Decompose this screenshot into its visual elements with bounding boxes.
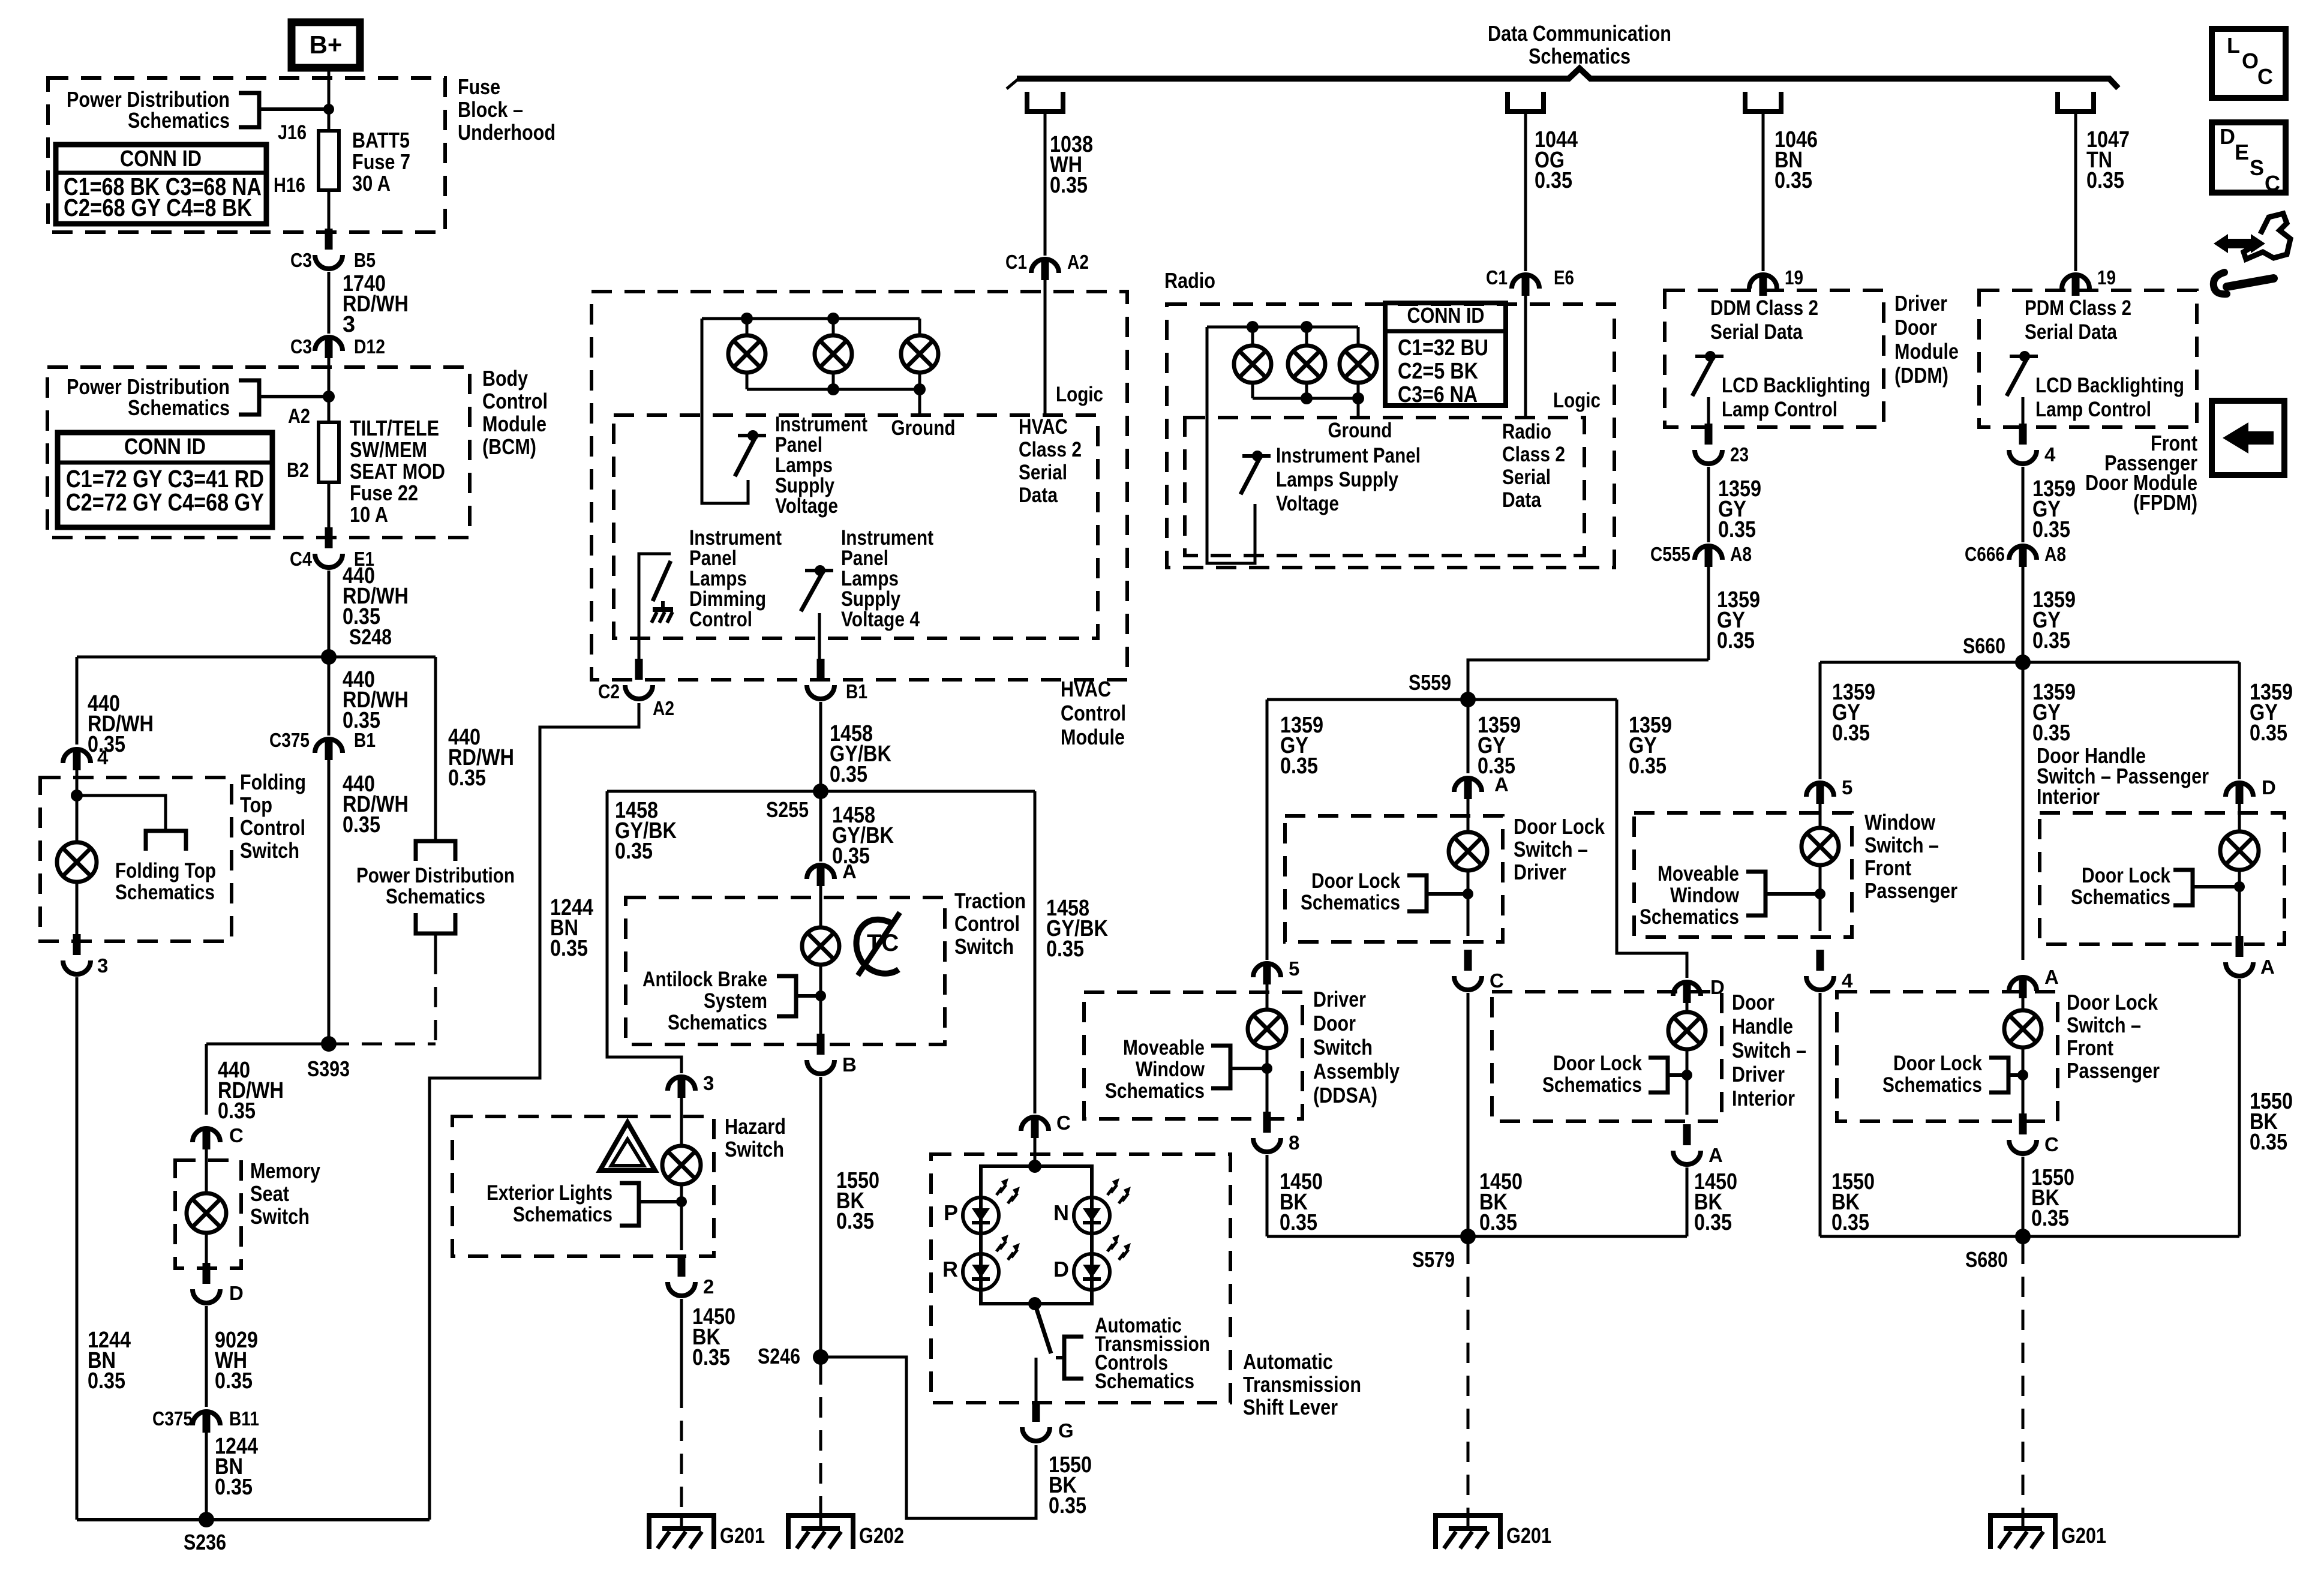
svg-text:D: D: [2262, 776, 2276, 798]
svg-text:D: D: [2220, 124, 2235, 149]
svg-text:S579: S579: [1412, 1247, 1455, 1272]
svg-text:(DDSA): (DDSA): [1313, 1083, 1377, 1107]
svg-text:Window: Window: [1670, 884, 1740, 907]
svg-text:Switch –: Switch –: [2067, 1013, 2141, 1037]
svg-text:Schematics: Schematics: [128, 395, 230, 420]
svg-text:3: 3: [97, 954, 108, 977]
svg-text:O: O: [2242, 49, 2259, 73]
svg-text:0.35: 0.35: [1717, 628, 1755, 653]
svg-text:Switch: Switch: [240, 838, 299, 863]
svg-text:C375: C375: [152, 1407, 193, 1430]
svg-text:5: 5: [1842, 776, 1852, 798]
svg-text:Ground: Ground: [891, 416, 956, 440]
svg-text:D12: D12: [354, 335, 385, 358]
svg-text:C2=5 BK: C2=5 BK: [1398, 359, 1478, 384]
svg-text:0.35: 0.35: [1718, 517, 1756, 542]
svg-text:Lamp Control: Lamp Control: [2035, 398, 2151, 421]
svg-text:(BCM): (BCM): [482, 434, 536, 459]
svg-text:4: 4: [2044, 443, 2056, 466]
svg-text:CONN ID: CONN ID: [120, 146, 202, 172]
svg-text:Switch: Switch: [1313, 1035, 1373, 1059]
svg-text:C666: C666: [1965, 543, 2005, 565]
svg-text:S248: S248: [349, 625, 392, 649]
svg-text:0.35: 0.35: [2086, 168, 2124, 193]
svg-text:S255: S255: [766, 797, 809, 822]
svg-text:Driver: Driver: [1514, 860, 1566, 884]
svg-text:Driver: Driver: [1894, 291, 1947, 316]
svg-text:C: C: [1056, 1112, 1071, 1134]
svg-text:H16: H16: [274, 174, 305, 197]
svg-text:Radio: Radio: [1164, 268, 1215, 293]
svg-text:Traction: Traction: [954, 888, 1026, 913]
svg-text:0.35: 0.35: [1479, 1210, 1517, 1235]
svg-text:G: G: [1058, 1419, 1074, 1442]
svg-text:Antilock Brake: Antilock Brake: [642, 968, 767, 991]
svg-text:D: D: [229, 1282, 244, 1304]
svg-text:C: C: [2044, 1133, 2059, 1155]
svg-text:0.35: 0.35: [2032, 517, 2070, 542]
svg-text:Front: Front: [2067, 1035, 2113, 1060]
svg-text:Lamps Supply: Lamps Supply: [1276, 468, 1398, 491]
svg-text:G202: G202: [859, 1523, 904, 1548]
svg-text:B+: B+: [310, 31, 343, 59]
svg-text:Interior: Interior: [1732, 1086, 1795, 1110]
svg-text:Schematics: Schematics: [1529, 44, 1631, 68]
svg-text:0.35: 0.35: [2031, 1206, 2069, 1231]
svg-text:(DDM): (DDM): [1894, 363, 1948, 388]
svg-text:J16: J16: [278, 121, 307, 144]
svg-text:0.35: 0.35: [215, 1475, 253, 1500]
svg-text:Moveable: Moveable: [1123, 1036, 1205, 1059]
svg-text:Instrument Panel: Instrument Panel: [1276, 444, 1421, 467]
svg-text:C2=68 GY C4=8 BK: C2=68 GY C4=8 BK: [64, 194, 252, 221]
svg-text:Schematics: Schematics: [1542, 1073, 1642, 1097]
svg-text:0.35: 0.35: [550, 936, 588, 961]
svg-text:Serial: Serial: [1502, 466, 1551, 489]
svg-text:D: D: [1053, 1257, 1069, 1281]
svg-text:Assembly: Assembly: [1313, 1059, 1400, 1083]
svg-text:S660: S660: [1963, 634, 2005, 658]
svg-text:Switch –: Switch –: [1514, 837, 1588, 861]
svg-text:0.35: 0.35: [2032, 628, 2070, 653]
svg-text:Door Lock: Door Lock: [2082, 864, 2170, 887]
svg-text:5: 5: [1289, 957, 1299, 980]
svg-text:0.35: 0.35: [215, 1368, 253, 1394]
svg-text:Voltage 4: Voltage 4: [841, 608, 920, 631]
svg-text:C2=72 GY C4=68 GY: C2=72 GY C4=68 GY: [66, 488, 264, 516]
svg-text:Serial Data: Serial Data: [2025, 320, 2117, 344]
svg-text:0.35: 0.35: [2250, 1130, 2287, 1155]
svg-text:C4: C4: [290, 548, 313, 570]
svg-text:0.35: 0.35: [1049, 1493, 1086, 1518]
svg-text:A: A: [2260, 956, 2275, 978]
svg-text:Exterior Lights: Exterior Lights: [487, 1181, 612, 1205]
svg-text:Transmission: Transmission: [1243, 1372, 1361, 1397]
svg-text:TILT/TELE: TILT/TELE: [350, 416, 439, 440]
svg-text:Schematics: Schematics: [2071, 885, 2170, 909]
svg-text:Driver: Driver: [1313, 987, 1366, 1011]
svg-text:S236: S236: [184, 1530, 226, 1554]
svg-text:Serial Data: Serial Data: [1710, 320, 1803, 344]
svg-text:4: 4: [97, 746, 109, 769]
svg-text:Schematics: Schematics: [386, 885, 485, 908]
svg-text:LCD Backlighting: LCD Backlighting: [1722, 374, 1870, 397]
svg-text:BATT5: BATT5: [352, 128, 410, 152]
svg-text:Switch: Switch: [725, 1137, 784, 1161]
svg-text:C2: C2: [598, 680, 620, 703]
svg-text:Window: Window: [1864, 810, 1936, 834]
svg-text:Class 2: Class 2: [1502, 443, 1565, 466]
svg-text:Module: Module: [482, 412, 547, 436]
svg-text:E6: E6: [1554, 266, 1574, 289]
svg-text:A: A: [2044, 966, 2059, 988]
svg-text:Radio: Radio: [1502, 420, 1551, 443]
svg-text:Control: Control: [1061, 701, 1126, 725]
svg-text:S559: S559: [1409, 670, 1451, 695]
svg-text:Switch: Switch: [250, 1204, 310, 1229]
svg-text:S: S: [2250, 155, 2264, 180]
svg-text:B1: B1: [354, 729, 376, 751]
svg-text:G201: G201: [2061, 1523, 2106, 1548]
svg-text:0.35: 0.35: [1050, 173, 1088, 198]
svg-text:19: 19: [2097, 266, 2116, 289]
svg-text:B11: B11: [229, 1407, 259, 1430]
svg-text:C3: C3: [290, 335, 312, 358]
svg-text:C: C: [2257, 64, 2273, 89]
svg-text:Door Lock: Door Lock: [1553, 1052, 1642, 1075]
svg-text:19: 19: [1785, 266, 1803, 289]
svg-text:0.35: 0.35: [1629, 754, 1667, 779]
svg-text:A2: A2: [653, 697, 674, 719]
svg-text:DDM Class 2: DDM Class 2: [1710, 296, 1818, 320]
svg-text:0.35: 0.35: [2032, 721, 2070, 746]
svg-text:Front: Front: [1864, 855, 1911, 880]
svg-text:0.35: 0.35: [830, 762, 867, 787]
svg-text:(FPDM): (FPDM): [2133, 490, 2197, 515]
svg-text:Switch –: Switch –: [1732, 1038, 1806, 1062]
svg-text:A: A: [842, 860, 857, 882]
svg-text:Schematics: Schematics: [115, 881, 215, 904]
svg-text:A2: A2: [1067, 251, 1089, 273]
svg-text:Logic: Logic: [1553, 389, 1601, 412]
svg-text:Driver: Driver: [1732, 1062, 1785, 1086]
svg-text:Schematics: Schematics: [128, 108, 230, 133]
svg-text:A: A: [1709, 1144, 1723, 1166]
svg-text:Schematics: Schematics: [1105, 1079, 1205, 1103]
svg-text:PDM Class 2: PDM Class 2: [2025, 296, 2131, 320]
svg-text:0.35: 0.35: [615, 839, 653, 864]
svg-text:Interior: Interior: [2037, 784, 2100, 809]
svg-text:Data: Data: [1502, 488, 1541, 512]
svg-text:HVAC: HVAC: [1061, 677, 1111, 701]
svg-text:0.35: 0.35: [1774, 168, 1812, 193]
svg-text:0.35: 0.35: [836, 1209, 874, 1234]
svg-text:3: 3: [703, 1072, 714, 1094]
svg-text:Automatic: Automatic: [1243, 1349, 1333, 1374]
svg-text:System: System: [704, 989, 767, 1013]
svg-text:Door Lock: Door Lock: [1311, 869, 1400, 893]
svg-text:Module: Module: [1894, 339, 1959, 364]
svg-text:Data Communication: Data Communication: [1488, 21, 1671, 46]
svg-text:Block –: Block –: [458, 97, 523, 122]
svg-text:0.35: 0.35: [1280, 1210, 1317, 1235]
svg-text:Control: Control: [954, 911, 1020, 936]
svg-text:C555: C555: [1650, 543, 1691, 565]
svg-text:Serial: Serial: [1019, 461, 1067, 484]
svg-text:Schematics: Schematics: [1882, 1073, 1982, 1097]
svg-text:Folding: Folding: [240, 770, 306, 794]
svg-text:0.35: 0.35: [1535, 168, 1572, 193]
svg-text:Switch: Switch: [954, 934, 1014, 959]
svg-text:Schematics: Schematics: [1095, 1370, 1194, 1393]
svg-text:B1: B1: [846, 680, 867, 703]
svg-text:Hazard: Hazard: [725, 1114, 786, 1139]
svg-text:Control: Control: [240, 815, 305, 840]
svg-text:Lamp Control: Lamp Control: [1722, 398, 1837, 421]
svg-text:CONN ID: CONN ID: [1407, 303, 1485, 328]
svg-text:N: N: [1053, 1200, 1069, 1225]
svg-text:A2: A2: [288, 405, 310, 428]
svg-text:0.35: 0.35: [1280, 754, 1318, 779]
svg-text:Door: Door: [1732, 990, 1774, 1014]
svg-text:Door: Door: [1894, 315, 1937, 340]
svg-text:0.35: 0.35: [1694, 1210, 1732, 1235]
svg-text:Class 2: Class 2: [1019, 438, 1082, 461]
svg-text:E: E: [2235, 140, 2249, 164]
svg-text:3: 3: [343, 312, 355, 337]
svg-text:Passenger: Passenger: [2067, 1058, 2160, 1083]
svg-text:Logic: Logic: [1056, 383, 1103, 406]
svg-text:Voltage: Voltage: [775, 494, 838, 518]
svg-text:LCD Backlighting: LCD Backlighting: [2035, 374, 2184, 397]
svg-text:Door Lock: Door Lock: [2067, 990, 2158, 1014]
svg-text:L: L: [2227, 33, 2240, 58]
svg-text:A: A: [1494, 773, 1509, 795]
svg-text:A8: A8: [1730, 543, 1752, 565]
svg-text:C3=6 NA: C3=6 NA: [1398, 382, 1478, 407]
svg-text:B5: B5: [354, 249, 376, 271]
svg-text:Module: Module: [1061, 725, 1125, 749]
svg-text:Control: Control: [689, 608, 752, 631]
svg-text:0.35: 0.35: [448, 766, 486, 791]
svg-text:S680: S680: [1965, 1247, 2008, 1272]
svg-text:C: C: [2265, 171, 2280, 196]
svg-text:G201: G201: [1506, 1523, 1551, 1548]
svg-text:8: 8: [1289, 1131, 1299, 1154]
svg-text:Switch –: Switch –: [1864, 833, 1939, 857]
svg-text:Body: Body: [482, 366, 528, 391]
svg-text:Power Distribution: Power Distribution: [356, 864, 515, 887]
svg-text:Door Lock: Door Lock: [1514, 814, 1605, 839]
svg-text:0.35: 0.35: [88, 1368, 125, 1394]
svg-text:Fuse 22: Fuse 22: [350, 481, 418, 505]
svg-text:Top: Top: [240, 792, 272, 817]
svg-text:Fuse 7: Fuse 7: [352, 149, 410, 174]
svg-text:Control: Control: [482, 389, 548, 413]
svg-text:P: P: [944, 1200, 958, 1225]
svg-text:Ground: Ground: [1328, 419, 1392, 442]
svg-text:B2: B2: [287, 459, 309, 482]
svg-text:Moveable: Moveable: [1658, 862, 1739, 885]
svg-text:2: 2: [703, 1275, 714, 1298]
svg-text:Schematics: Schematics: [1640, 905, 1739, 929]
svg-text:30 A: 30 A: [352, 171, 391, 196]
svg-text:Door: Door: [1313, 1011, 1356, 1035]
svg-text:C375: C375: [269, 729, 310, 751]
svg-text:Data: Data: [1019, 484, 1058, 507]
svg-text:Handle: Handle: [1732, 1014, 1793, 1038]
svg-text:0.35: 0.35: [2250, 721, 2287, 746]
svg-text:C: C: [1490, 969, 1504, 992]
svg-text:C3: C3: [290, 249, 312, 271]
svg-text:0.35: 0.35: [218, 1098, 256, 1124]
svg-text:C: C: [229, 1124, 244, 1146]
svg-text:4: 4: [1842, 969, 1853, 992]
svg-text:Folding Top: Folding Top: [115, 859, 216, 882]
svg-text:Fuse: Fuse: [458, 74, 500, 99]
svg-text:R: R: [942, 1257, 958, 1281]
svg-text:Seat: Seat: [250, 1181, 289, 1206]
svg-text:Door Lock: Door Lock: [1893, 1052, 1982, 1075]
svg-text:C1: C1: [1486, 266, 1508, 289]
svg-text:0.35: 0.35: [343, 812, 380, 837]
svg-text:Schematics: Schematics: [668, 1011, 767, 1034]
svg-text:Schematics: Schematics: [1301, 891, 1400, 914]
svg-text:C1: C1: [1005, 251, 1027, 273]
svg-text:23: 23: [1730, 443, 1749, 466]
svg-text:0.35: 0.35: [692, 1345, 730, 1370]
svg-text:Voltage: Voltage: [1276, 492, 1339, 515]
svg-text:B: B: [842, 1053, 857, 1076]
svg-text:0.35: 0.35: [1831, 1210, 1869, 1235]
svg-text:Underhood: Underhood: [458, 120, 556, 145]
svg-text:Passenger: Passenger: [1864, 878, 1957, 903]
svg-text:HVAC: HVAC: [1019, 415, 1068, 439]
svg-text:S393: S393: [307, 1056, 350, 1081]
svg-text:Schematics: Schematics: [513, 1203, 612, 1226]
svg-text:A8: A8: [2044, 543, 2066, 565]
svg-text:SW/MEM: SW/MEM: [350, 437, 427, 462]
svg-text:CONN ID: CONN ID: [124, 434, 206, 460]
svg-text:C1=32 BU: C1=32 BU: [1398, 335, 1488, 361]
svg-text:10 A: 10 A: [350, 502, 388, 527]
svg-text:S246: S246: [758, 1344, 800, 1368]
svg-text:0.35: 0.35: [1046, 936, 1084, 962]
svg-text:G201: G201: [720, 1523, 765, 1548]
svg-text:0.35: 0.35: [1832, 721, 1870, 746]
svg-text:Window: Window: [1136, 1058, 1205, 1081]
svg-text:SEAT MOD: SEAT MOD: [350, 459, 445, 484]
svg-text:Shift Lever: Shift Lever: [1243, 1395, 1338, 1419]
svg-text:Memory: Memory: [250, 1158, 320, 1183]
